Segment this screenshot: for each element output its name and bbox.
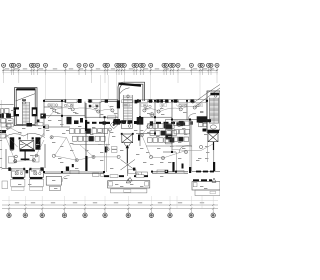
upper dark block left [78,99,82,103]
left bottom dark marks [0,114,11,118]
left stair door jamb dark right [32,107,38,116]
wall dark nub 72 [72,164,74,167]
mid stair bottom dark band [113,121,139,125]
right door arc 2 [179,146,189,154]
top dimension line 1 [2,69,218,71]
right living corner box [193,183,197,187]
middle stair curve [120,88,130,94]
center right unit cluster [138,124,177,146]
bay window 1 box [11,169,25,177]
left stair door jamb dark left [14,107,20,116]
left stair ramp line [16,94,36,102]
room symbols tiny [48,104,187,108]
center living room outline [108,181,150,188]
wall dark pair 165 [165,170,168,173]
far left edge cluster [0,123,11,138]
upper rooms walls [44,100,207,120]
socket marks [89,105,98,108]
room bottom walls [6,116,207,120]
elevator E2 stem [126,148,128,163]
tiny text speckle [6,104,209,189]
top dimension texts [5,68,214,69]
bay2 symbols [34,172,41,175]
center living dashed wall [104,175,148,177]
bottom wall col dark 2 [40,167,43,171]
wall x86 [85,103,87,171]
wall dark nub 133 [133,168,135,171]
bottom grid bubbles row [7,209,216,218]
middle stair tower top dark band [119,83,142,87]
corridor left boxes [112,147,118,153]
left small dark block [40,114,46,119]
upper room ceiling lamps [53,106,197,113]
middle stair tower outline [118,82,145,101]
building top wall right span [145,100,208,102]
E1 crossing wires [5,133,44,147]
kite symbol [110,121,118,128]
mid dashed wall left [85,122,103,124]
building top wall left span [44,100,118,102]
bottom dimension texts [15,202,204,203]
bay window 1 rail [11,179,25,186]
mid tower label box [108,116,116,119]
right living dashed wall [193,179,212,181]
corridor dark seg [105,147,108,153]
room label boxes [48,104,203,107]
middle stair treads [124,95,133,123]
bottom dim line 3 [2,208,218,210]
bay window 1 dark sill [13,177,24,179]
center living rail label [124,190,131,193]
elevator E2 cab X-box [122,134,133,143]
bottom wall col dark 1 [8,167,11,171]
right stair lamp [214,95,217,98]
panel row under wall [136,172,148,176]
bay window 2 box [29,169,43,177]
wall junction dots [43,100,208,173]
elevator E1 shaft walls [10,137,41,151]
left rooms top wall [0,103,14,105]
bottom wall col dark 5 [189,167,191,173]
corridor wall verticals [5,120,192,173]
mid tower left wall line [117,102,119,121]
left unit fixture rows [70,118,111,144]
right top wall dashes [196,171,214,173]
small fan symbol [150,113,154,117]
bay window 2 rail [29,179,43,186]
left small cluster [45,125,49,129]
right wall label box [177,170,185,173]
upper lamp pair left [15,154,38,158]
tower wall lamp [22,99,26,104]
E2 wire hub X [121,160,135,177]
top dim tick slashes [3,69,218,71]
top dimension line 2 [2,72,218,74]
room B2 box [46,176,61,185]
elevator E2 arrow [126,145,129,148]
below-rail left boxes [2,181,8,189]
E2 white arrow [126,179,130,183]
stair bottom dark marks [27,120,40,127]
elevator E2 hopper [124,143,131,146]
dark panel blocks mid band [67,116,212,126]
left stair treads [23,102,30,126]
mid band interior walls [44,116,207,152]
corridor dark dashes right [156,122,175,124]
top grid bubbles row [2,63,219,75]
mid wall labels [70,170,165,174]
center living white arrow [128,177,133,181]
left dim ticks [0,104,2,168]
E2 corner dots [121,133,134,135]
mid panel box [121,120,132,128]
elevator E1 stem [21,152,30,161]
top wall door gap [82,99,88,102]
elevator E3 cab X-box [208,133,218,142]
below wall boxes 93 [93,173,105,176]
left bottom outline boxes [7,119,14,123]
right living rail label [210,191,216,194]
right top small boxes [199,123,207,127]
dark bar x182 [182,164,184,169]
right living outline [192,182,220,190]
center living corner boxes [109,182,149,186]
dark bar x173 [172,162,174,172]
right fan oval [210,125,216,129]
right living white arrow [212,178,216,182]
top wall column blocks [65,99,194,102]
elevator E1 cab X-box [20,141,34,150]
mid band ceiling lamps [14,123,203,162]
hall door arc [62,176,70,183]
bay divider marks [23,168,31,174]
mid dash extra [106,122,111,124]
upper label box left [66,100,77,103]
mid band wires [5,125,213,161]
bay window 2 dark sill [30,177,43,179]
E3 band ext [203,129,207,132]
stair bottom boxes [6,123,43,127]
right stair tower outline [207,91,220,130]
right room divider wall [176,152,178,172]
bottom dim line 2 [2,204,218,206]
bottom dim tick slashes [8,204,214,210]
bay1 symbols [15,172,23,175]
center living label boxes [110,175,144,178]
top wall window boxes [67,100,206,103]
left edge dim line [0,100,2,170]
middle stair left thick wall [117,100,120,108]
center living rail [111,189,147,193]
wire junction dots [15,135,187,166]
under-rail decks [12,187,43,191]
bay1 lamp [14,160,17,163]
middle stair right base col [135,100,138,104]
right room door arc [188,114,196,121]
room B2 label box [50,186,61,190]
right canopy dark band [210,93,219,96]
elevator E3 dark header [207,130,219,133]
bottom wall col dark 4 [85,156,87,171]
left unit symbol boxes [9,156,40,164]
left stair tower outline [15,88,38,126]
corridor door arcs left [2,128,45,138]
right tower lower wall [207,130,209,162]
bottom dim line 1 [2,199,218,201]
bottom wall col dark 6 [213,162,215,171]
upper band wires [48,104,199,118]
left stair tower top dark band [17,88,36,90]
bottom wall col dark 3 [66,167,69,171]
top grid line extensions [4,75,217,99]
bottom wall left [2,169,220,174]
left edge rooms [1,109,10,123]
right living rail [195,190,220,196]
right stair treads [210,98,219,124]
elevator E3 stem [213,142,215,162]
bottom grid stubs [9,196,213,209]
right canopy curve [193,85,221,107]
right unit cluster [166,120,190,144]
